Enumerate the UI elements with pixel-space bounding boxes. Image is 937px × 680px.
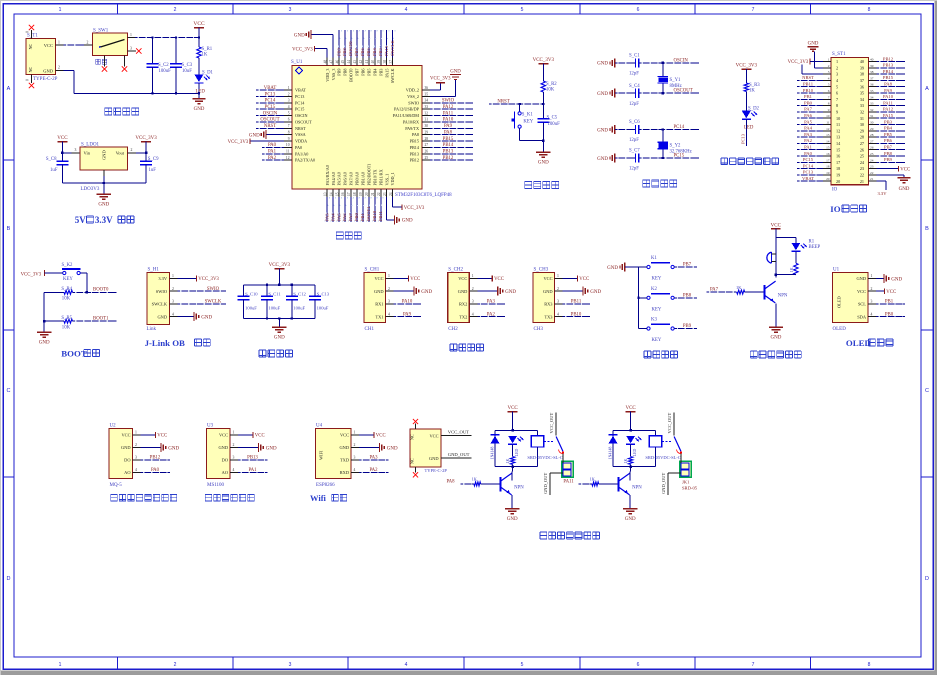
svg-text:22: 22 <box>870 171 874 175</box>
svg-text:PB3: PB3 <box>378 47 383 56</box>
svg-text:PC14: PC14 <box>674 125 685 130</box>
svg-text:VCC: VCC <box>429 433 438 438</box>
svg-text:GND: GND <box>421 290 432 295</box>
svg-text:25: 25 <box>425 156 429 160</box>
svg-text:GND: GND <box>538 161 549 166</box>
svg-text:18: 18 <box>353 192 357 196</box>
svg-text:NPN: NPN <box>778 294 788 299</box>
svg-text:GND: GND <box>597 128 608 133</box>
svg-text:4: 4 <box>871 312 873 316</box>
svg-text:12pF: 12pF <box>629 167 639 172</box>
svg-text:PB6: PB6 <box>361 69 366 76</box>
svg-text:32: 32 <box>860 110 864 115</box>
svg-text:S_Y1: S_Y1 <box>670 78 682 83</box>
svg-text:PB14: PB14 <box>883 69 894 74</box>
svg-text:23: 23 <box>870 165 874 169</box>
svg-text:3: 3 <box>871 300 873 304</box>
svg-text:WIFI: WIFI <box>319 450 324 460</box>
svg-text:PA8: PA8 <box>412 132 419 137</box>
svg-text:PB3: PB3 <box>378 69 383 76</box>
svg-text:VSSA: VSSA <box>295 132 306 137</box>
svg-text:100uF: 100uF <box>268 306 280 311</box>
svg-text:5: 5 <box>288 111 290 115</box>
svg-text:VCC_3V3: VCC_3V3 <box>269 263 291 268</box>
svg-text:21: 21 <box>860 179 864 184</box>
svg-text:PA10: PA10 <box>443 118 454 123</box>
svg-text:GND: GND <box>274 336 285 341</box>
svg-text:8: 8 <box>828 102 830 106</box>
svg-text:27: 27 <box>425 143 429 147</box>
svg-text:PA3: PA3 <box>369 456 378 461</box>
svg-text:13: 13 <box>323 192 327 196</box>
svg-text:3.3V: 3.3V <box>158 276 167 281</box>
svg-text:SWCLK: SWCLK <box>390 69 395 84</box>
svg-text:PA2: PA2 <box>487 312 496 317</box>
svg-text:PB5: PB5 <box>366 47 371 56</box>
svg-text:3: 3 <box>289 7 292 13</box>
svg-text:GND: GND <box>201 316 212 321</box>
svg-text:PA1: PA1 <box>248 468 257 473</box>
svg-text:100uF: 100uF <box>159 69 172 74</box>
svg-text:1N4148: 1N4148 <box>489 447 494 460</box>
svg-text:15: 15 <box>836 147 840 152</box>
svg-text:PB4: PB4 <box>372 68 377 76</box>
svg-text:16: 16 <box>836 154 840 159</box>
svg-text:S_Y2: S_Y2 <box>670 144 682 149</box>
svg-text:S_R3: S_R3 <box>749 83 760 88</box>
svg-text:GND: GND <box>102 150 107 160</box>
svg-text:7: 7 <box>752 662 755 668</box>
svg-text:4: 4 <box>233 468 235 472</box>
svg-text:PA0: PA0 <box>151 468 160 473</box>
svg-text:BOOT1: BOOT1 <box>366 207 371 222</box>
svg-text:4: 4 <box>354 468 356 472</box>
svg-text:PB0: PB0 <box>885 312 894 317</box>
svg-text:37: 37 <box>389 60 393 64</box>
svg-text:PA7: PA7 <box>710 288 719 293</box>
svg-text:GND: GND <box>39 341 50 346</box>
svg-text:PB1/A0: PB1/A0 <box>361 172 366 186</box>
svg-text:40: 40 <box>371 60 375 64</box>
svg-text:11: 11 <box>286 150 290 154</box>
svg-text:12pF: 12pF <box>629 138 639 143</box>
svg-text:VCC: VCC <box>121 433 130 438</box>
svg-text:GND: GND <box>543 289 553 294</box>
svg-text:S_C7: S_C7 <box>629 149 640 154</box>
svg-text:1K: 1K <box>505 459 510 464</box>
svg-text:1: 1 <box>59 662 62 668</box>
svg-text:GND: GND <box>294 34 305 39</box>
svg-text:27: 27 <box>860 141 864 146</box>
svg-text:15: 15 <box>335 192 339 196</box>
svg-text:LED: LED <box>744 126 754 131</box>
svg-text:S_R2: S_R2 <box>546 82 557 87</box>
svg-text:TYPE-C-2P: TYPE-C-2P <box>425 468 448 473</box>
svg-text:STM32F103C8T6_LQFP48: STM32F103C8T6_LQFP48 <box>395 193 452 198</box>
svg-text:1: 1 <box>233 431 235 435</box>
svg-text:OSCOUT: OSCOUT <box>260 118 279 123</box>
svg-text:PA10/RX: PA10/RX <box>403 119 419 124</box>
svg-text:35: 35 <box>425 92 429 96</box>
svg-text:PB1: PB1 <box>885 300 894 305</box>
svg-text:VDD_3: VDD_3 <box>325 69 330 82</box>
svg-text:B: B <box>7 226 11 232</box>
svg-text:PA7/A0: PA7/A0 <box>349 172 354 185</box>
svg-text:30: 30 <box>870 121 874 125</box>
svg-text:VCC: VCC <box>410 277 420 282</box>
svg-text:VCC: VCC <box>900 167 910 172</box>
svg-text:R1: R1 <box>809 239 815 244</box>
svg-text:7: 7 <box>828 95 830 99</box>
svg-text:PA8: PA8 <box>884 82 892 87</box>
svg-text:26: 26 <box>425 150 429 154</box>
svg-text:S_C9: S_C9 <box>148 157 159 162</box>
svg-text:12: 12 <box>286 156 290 160</box>
svg-text:1K: 1K <box>789 267 794 272</box>
svg-text:OLED: OLED <box>833 327 847 332</box>
svg-text:PA9: PA9 <box>403 312 412 317</box>
svg-text:SDA: SDA <box>857 314 867 319</box>
svg-text:1: 1 <box>828 58 830 62</box>
svg-text:PB1: PB1 <box>360 213 365 221</box>
svg-text:PB15: PB15 <box>443 137 454 142</box>
svg-text:SWCLK: SWCLK <box>205 300 222 305</box>
svg-text:S_C13: S_C13 <box>317 292 330 297</box>
svg-text:48: 48 <box>323 60 327 64</box>
svg-text:S_C6: S_C6 <box>629 120 640 125</box>
svg-text:3: 3 <box>75 148 77 152</box>
svg-text:2: 2 <box>87 40 89 44</box>
svg-text:9: 9 <box>836 110 838 115</box>
svg-text:BOOT: BOOT <box>61 349 87 359</box>
svg-text:5: 5 <box>521 7 524 13</box>
svg-text:30: 30 <box>425 124 429 128</box>
svg-text:AO: AO <box>222 470 228 475</box>
svg-text:26: 26 <box>860 147 864 152</box>
svg-text:PB11: PB11 <box>803 82 814 87</box>
svg-text:2: 2 <box>388 287 390 291</box>
svg-text:29: 29 <box>425 131 429 135</box>
svg-text:25: 25 <box>870 152 874 156</box>
svg-text:PB9: PB9 <box>884 157 893 162</box>
svg-text:2: 2 <box>135 443 137 447</box>
svg-text:VSS_1: VSS_1 <box>384 174 389 186</box>
svg-text:GND: GND <box>429 456 439 461</box>
svg-text:U2: U2 <box>110 423 117 428</box>
svg-text:23: 23 <box>860 166 864 171</box>
svg-text:SWCLK: SWCLK <box>390 39 395 56</box>
svg-text:U1: U1 <box>833 267 840 272</box>
svg-text:3: 3 <box>135 456 137 460</box>
svg-text:VCC: VCC <box>579 277 589 282</box>
svg-text:1: 1 <box>388 274 390 278</box>
svg-text:30: 30 <box>860 122 864 127</box>
svg-text:1K: 1K <box>472 476 478 481</box>
svg-text:LED: LED <box>196 89 206 94</box>
svg-text:PA15: PA15 <box>883 113 894 118</box>
svg-text:GND: GND <box>458 289 468 294</box>
svg-text:PA9: PA9 <box>884 88 892 93</box>
svg-text:K1: K1 <box>651 256 657 261</box>
svg-text:16: 16 <box>341 192 345 196</box>
svg-text:PA4: PA4 <box>804 126 812 131</box>
svg-text:17: 17 <box>836 160 840 165</box>
svg-text:28: 28 <box>425 137 429 141</box>
svg-text:10: 10 <box>826 114 830 118</box>
svg-text:PB0: PB0 <box>804 100 813 105</box>
svg-text:47: 47 <box>329 60 333 64</box>
svg-text:PB12: PB12 <box>410 158 419 163</box>
svg-text:PB8: PB8 <box>884 151 893 156</box>
svg-text:VSS_3: VSS_3 <box>331 69 336 81</box>
svg-text:PA1/A0: PA1/A0 <box>295 151 308 156</box>
svg-text:13: 13 <box>826 133 830 137</box>
svg-text:10uF: 10uF <box>182 69 192 74</box>
svg-text:PC13: PC13 <box>295 94 304 99</box>
svg-text:PA12: PA12 <box>443 105 454 110</box>
svg-text:34: 34 <box>870 95 874 99</box>
svg-text:43: 43 <box>353 60 357 64</box>
svg-text:S_C3: S_C3 <box>182 63 193 68</box>
svg-text:SWIO: SWIO <box>156 289 167 294</box>
svg-text:24: 24 <box>389 192 393 196</box>
svg-text:PA0: PA0 <box>268 143 277 148</box>
svg-text:33: 33 <box>860 103 864 108</box>
svg-text:SWIO: SWIO <box>442 99 455 104</box>
svg-text:S_D1: S_D1 <box>202 71 214 76</box>
svg-text:PB13: PB13 <box>443 150 454 155</box>
svg-text:PC13: PC13 <box>265 92 276 97</box>
svg-text:2: 2 <box>871 287 873 291</box>
svg-text:2: 2 <box>557 287 559 291</box>
svg-text:SWIO: SWIO <box>207 287 220 292</box>
svg-text:VCC: VCC <box>219 433 228 438</box>
svg-text:2: 2 <box>131 148 133 152</box>
svg-text:J-Link OB: J-Link OB <box>145 338 185 348</box>
svg-text:PA0: PA0 <box>804 151 812 156</box>
svg-text:GND: GND <box>597 62 608 67</box>
svg-text:DO: DO <box>222 458 228 463</box>
svg-text:SWCLK: SWCLK <box>152 302 168 307</box>
svg-text:BOOT1: BOOT1 <box>93 317 109 322</box>
svg-text:NPN: NPN <box>514 486 524 491</box>
svg-text:GND: GND <box>121 445 131 450</box>
svg-text:PA1: PA1 <box>268 150 277 155</box>
svg-text:NRST: NRST <box>295 126 306 131</box>
svg-text:15: 15 <box>826 146 830 150</box>
svg-text:36: 36 <box>425 86 429 90</box>
svg-text:35: 35 <box>860 91 864 96</box>
svg-text:BOOT0: BOOT0 <box>349 69 354 83</box>
svg-text:1: 1 <box>130 33 132 37</box>
svg-text:21: 21 <box>870 177 874 181</box>
svg-text:PA11: PA11 <box>443 111 454 116</box>
svg-text:GND: GND <box>387 446 398 451</box>
svg-text:4: 4 <box>828 76 830 80</box>
svg-text:7: 7 <box>752 7 755 13</box>
svg-text:36: 36 <box>870 83 874 87</box>
svg-text:4: 4 <box>288 105 290 109</box>
svg-text:VCC_3V3: VCC_3V3 <box>228 140 249 145</box>
svg-text:PA5/A0: PA5/A0 <box>337 172 342 185</box>
svg-text:PA10: PA10 <box>883 94 894 99</box>
svg-text:VDDA: VDDA <box>295 139 307 144</box>
svg-text:1K: 1K <box>749 89 755 94</box>
svg-text:40: 40 <box>860 59 864 64</box>
svg-text:9: 9 <box>828 108 830 112</box>
svg-text:PA6: PA6 <box>342 213 347 221</box>
svg-text:GND: GND <box>597 157 608 162</box>
svg-text:VCC: VCC <box>193 21 205 27</box>
svg-text:PA7: PA7 <box>348 213 353 221</box>
svg-text:3: 3 <box>289 662 292 668</box>
svg-text:17: 17 <box>826 158 830 162</box>
svg-text:PB7: PB7 <box>884 145 893 150</box>
svg-text:17: 17 <box>347 192 351 196</box>
svg-text:U3: U3 <box>207 423 214 428</box>
svg-text:VCC_3V3: VCC_3V3 <box>21 273 42 278</box>
svg-text:0: 0 <box>26 31 30 33</box>
svg-text:VCC: VCC <box>494 277 504 282</box>
svg-text:PA4/A0: PA4/A0 <box>331 172 336 185</box>
svg-text:100uF: 100uF <box>245 306 257 311</box>
svg-text:2: 2 <box>836 65 838 70</box>
svg-text:VBAT: VBAT <box>264 86 277 91</box>
svg-text:38: 38 <box>870 70 874 74</box>
svg-text:SRD-05VDC-SL-C: SRD-05VDC-SL-C <box>645 455 681 460</box>
svg-text:PB7: PB7 <box>683 263 692 268</box>
svg-text:14: 14 <box>826 139 830 143</box>
svg-text:PB10: PB10 <box>803 88 814 93</box>
svg-text:11: 11 <box>836 122 840 127</box>
svg-text:20: 20 <box>365 192 369 196</box>
svg-text:GND: GND <box>194 107 205 112</box>
svg-text:2: 2 <box>288 92 290 96</box>
svg-text:VCC_3V3: VCC_3V3 <box>533 58 555 63</box>
svg-text:GND: GND <box>157 314 167 319</box>
svg-text:37: 37 <box>860 78 864 83</box>
svg-text:PB15: PB15 <box>883 75 894 80</box>
svg-text:PA11/USB/DM: PA11/USB/DM <box>393 113 419 118</box>
svg-text:9: 9 <box>288 137 290 141</box>
svg-text:1: 1 <box>836 59 838 64</box>
svg-text:4: 4 <box>405 662 408 668</box>
svg-text:DO: DO <box>124 458 130 463</box>
svg-text:S_CH1: S_CH1 <box>365 267 380 272</box>
svg-text:SRD-05: SRD-05 <box>682 486 698 491</box>
svg-text:PB8: PB8 <box>342 47 347 56</box>
svg-text:LED: LED <box>514 449 519 457</box>
svg-text:16: 16 <box>826 152 830 156</box>
svg-text:2: 2 <box>174 662 177 668</box>
svg-text:GND: GND <box>266 446 277 451</box>
svg-text:PB14: PB14 <box>443 143 454 148</box>
svg-text:GND: GND <box>339 445 349 450</box>
svg-text:PB12: PB12 <box>883 56 894 61</box>
svg-text:CH1: CH1 <box>365 327 375 332</box>
svg-text:6: 6 <box>288 118 290 122</box>
svg-text:A: A <box>7 86 11 92</box>
svg-text:23: 23 <box>383 192 387 196</box>
svg-text:NRST: NRST <box>497 100 509 105</box>
svg-text:3: 3 <box>828 70 830 74</box>
svg-text:KEY: KEY <box>63 277 73 282</box>
svg-text:TX3: TX3 <box>544 314 553 319</box>
svg-text:VCC: VCC <box>340 433 349 438</box>
svg-text:OSCOUT: OSCOUT <box>295 119 312 124</box>
svg-text:40: 40 <box>870 58 874 62</box>
svg-text:2: 2 <box>472 287 474 291</box>
svg-text:VCC_3V3: VCC_3V3 <box>198 277 219 282</box>
svg-text:25: 25 <box>860 154 864 159</box>
svg-text:34: 34 <box>425 99 429 103</box>
svg-text:S_ST1: S_ST1 <box>832 52 846 57</box>
svg-text:3: 3 <box>354 456 356 460</box>
svg-text:PA6/A0: PA6/A0 <box>343 172 348 185</box>
svg-text:PB14: PB14 <box>410 145 420 150</box>
svg-text:S_C2: S_C2 <box>158 63 169 68</box>
svg-text:3: 3 <box>472 300 474 304</box>
svg-text:S_C10: S_C10 <box>245 292 258 297</box>
svg-text:VCC_3V3: VCC_3V3 <box>404 206 425 211</box>
svg-text:46: 46 <box>335 60 339 64</box>
svg-text:GND: GND <box>505 290 516 295</box>
svg-text:6: 6 <box>637 7 640 13</box>
svg-text:PA3/RX/A0: PA3/RX/A0 <box>325 165 330 185</box>
svg-text:33: 33 <box>425 105 429 109</box>
svg-text:3: 3 <box>388 300 390 304</box>
svg-text:S_C11: S_C11 <box>268 292 281 297</box>
svg-text:2: 2 <box>233 443 235 447</box>
svg-text:GND: GND <box>597 92 608 97</box>
svg-text:K2: K2 <box>651 287 657 292</box>
svg-text:PA2/TX/A0: PA2/TX/A0 <box>295 158 315 163</box>
svg-text:PA8: PA8 <box>446 479 455 484</box>
svg-text:VCC_3V3: VCC_3V3 <box>430 77 451 82</box>
svg-text:PB9: PB9 <box>336 47 341 56</box>
svg-text:OSCIN: OSCIN <box>674 58 689 63</box>
svg-text:1: 1 <box>557 274 559 278</box>
svg-text:PA11: PA11 <box>563 479 574 484</box>
svg-text:PA8: PA8 <box>444 130 453 135</box>
svg-text:VCC: VCC <box>771 224 782 229</box>
svg-text:1: 1 <box>135 431 137 435</box>
svg-text:3.3V: 3.3V <box>877 191 887 196</box>
svg-text:4: 4 <box>472 312 474 316</box>
svg-text:PA6: PA6 <box>804 113 812 118</box>
svg-text:39: 39 <box>870 64 874 68</box>
svg-text:D: D <box>925 576 929 582</box>
svg-text:2: 2 <box>58 66 60 70</box>
svg-text:37: 37 <box>870 76 874 80</box>
svg-text:GND: GND <box>856 276 866 281</box>
svg-text:PA15: PA15 <box>384 45 389 56</box>
svg-text:3: 3 <box>233 456 235 460</box>
svg-text:VDD_1: VDD_1 <box>390 172 395 185</box>
svg-text:5: 5 <box>836 84 838 89</box>
svg-text:PC14: PC14 <box>803 163 814 168</box>
svg-text:PB1: PB1 <box>804 94 813 99</box>
svg-text:PB13: PB13 <box>410 151 419 156</box>
svg-text:K3: K3 <box>651 318 657 323</box>
svg-text:MQ-5: MQ-5 <box>110 483 123 488</box>
svg-text:PB13: PB13 <box>883 63 894 68</box>
svg-text:VBAT: VBAT <box>802 176 814 181</box>
svg-text:PC13: PC13 <box>741 133 746 144</box>
svg-text:29: 29 <box>870 127 874 131</box>
svg-text:S_U1: S_U1 <box>291 60 303 65</box>
svg-text:GND: GND <box>249 134 260 139</box>
